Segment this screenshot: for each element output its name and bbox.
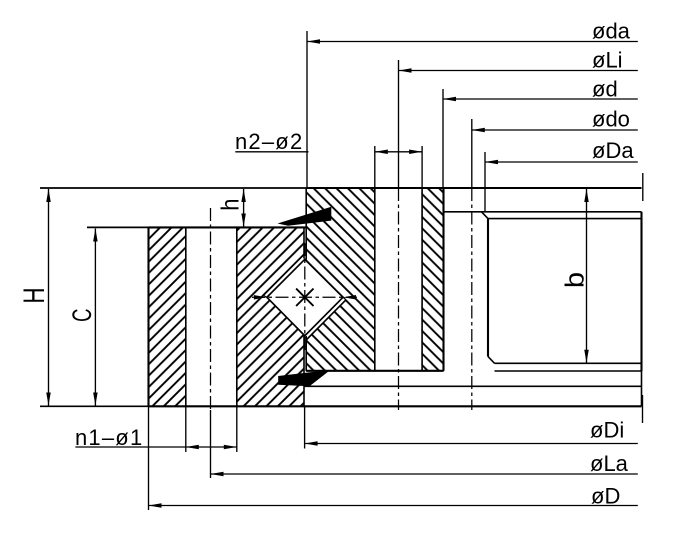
svg-text:øLi: øLi: [592, 48, 623, 73]
svg-text:H: H: [17, 287, 51, 303]
svg-text:n1–ø1: n1–ø1: [75, 425, 143, 450]
svg-text:øLa: øLa: [590, 451, 629, 476]
svg-text:øD: øD: [591, 484, 620, 509]
svg-text:n2–ø2: n2–ø2: [235, 129, 303, 154]
svg-text:øda: øda: [592, 19, 631, 44]
svg-text:C: C: [66, 309, 96, 322]
svg-text:ød: ød: [592, 77, 618, 102]
svg-text:ødo: ødo: [592, 107, 630, 132]
svg-text:h: h: [216, 198, 244, 210]
svg-text:øDi: øDi: [590, 418, 624, 443]
svg-text:øDa: øDa: [592, 138, 634, 163]
svg-text:b: b: [560, 272, 589, 288]
